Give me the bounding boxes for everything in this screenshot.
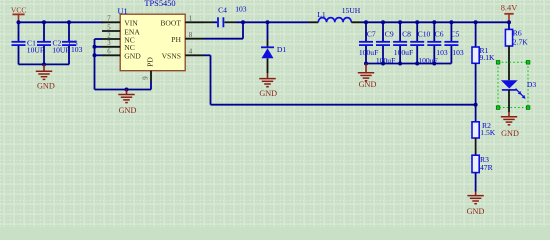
svg-text:D3: D3 [527,80,536,89]
svg-text:103: 103 [452,48,464,57]
capacitor C10 [410,42,424,45]
wire C10 bottom lead [416,46,418,64]
node input gnd junction [42,62,46,66]
node PH junction [241,20,245,24]
pin 1 BOOT stub [185,21,204,23]
node C1 junction [17,20,21,24]
svg-text:6: 6 [107,49,111,56]
svg-text:C7: C7 [367,29,376,38]
node output cap junction [449,20,453,24]
wire C4 to PH node [225,21,237,23]
ground D3 [501,117,519,139]
svg-text:100uF: 100uF [394,48,413,57]
node feedback junction [474,103,478,107]
resistor R3 [472,155,479,172]
pin 9 PD stub [150,71,152,81]
pin 5 ENA stub [102,30,120,32]
svg-text:8.4V: 8.4V [501,4,518,13]
wire D1 gnd stem [267,73,269,79]
svg-text:D1: D1 [277,45,286,54]
wire BOOT to C4 [204,21,214,23]
svg-text:47R: 47R [480,163,494,172]
ground output caps [358,73,377,89]
pin 2 NC stub [102,38,120,40]
svg-text:4: 4 [189,49,193,56]
node D1 junction [266,20,270,24]
svg-text:R6: R6 [513,29,522,38]
svg-text:TPS5450: TPS5450 [144,0,175,8]
wire C1 top lead [18,22,20,41]
svg-text:9.1K: 9.1K [480,53,495,62]
svg-text:GND: GND [124,52,141,61]
capacitor C4 [218,17,223,27]
node output bottom junction [381,62,385,66]
wire PH riser [242,22,244,38]
wire R1 to feedback node [475,63,477,104]
wire C9 top lead [382,22,384,41]
node U1 gnd junction [125,88,129,92]
wire pin9 drop [150,81,152,90]
svg-text:C5: C5 [451,29,460,38]
svg-text:15UH: 15UH [342,6,361,15]
wire C3 bottom lead [68,46,70,65]
wire VSNS riser [210,55,212,104]
wire D3 gnd stem [508,112,510,117]
svg-text:103: 103 [436,48,448,57]
wire D1 top lead [267,22,269,40]
node C2 junction [42,20,46,24]
svg-text:GND: GND [259,89,277,98]
wire output rail [362,21,510,23]
svg-text:VIN: VIN [124,19,138,28]
svg-text:C6: C6 [435,29,444,38]
svg-text:GND: GND [359,80,377,89]
wire C1 bottom lead [18,46,20,65]
svg-text:GND: GND [467,207,485,216]
wire R2 to R3 [475,138,477,155]
capacitor C8 [393,42,407,45]
op-amp U1 TPS5450 body [120,14,185,70]
wire C10 top lead [416,22,418,41]
ground U1 [118,95,136,116]
wire output cap bottom rail [366,63,451,65]
svg-text:BOOT: BOOT [160,19,181,28]
svg-text:8: 8 [189,32,193,39]
wire U1 GND stem [126,90,128,95]
wire feedback horizontal [211,104,476,106]
svg-text:GND: GND [119,106,137,115]
wire C2 top lead [43,22,45,41]
node pin3 junction [93,45,97,49]
node output bottom junction [398,62,402,66]
pin 4 VSNS stub [185,54,204,56]
svg-text:2: 2 [107,32,111,39]
wire C9 bottom lead [382,46,384,64]
svg-text:GND: GND [37,81,55,90]
svg-text:103: 103 [235,4,247,13]
wire C2 bottom lead [43,46,45,65]
diode D1 [261,40,274,73]
svg-text:VCC: VCC [11,6,27,15]
node output cap junction [381,20,385,24]
wire C3 top lead [68,22,70,41]
wire C8 top lead [399,22,401,41]
wire output GND stem [365,64,367,73]
wire pin2 link [95,38,103,40]
svg-text:C8: C8 [402,29,411,38]
svg-text:U1: U1 [117,7,127,16]
wire PH to riser [204,38,243,40]
node pin6 junction [93,53,97,57]
wire C6 bottom lead [433,46,435,64]
capacitor C9 [376,42,390,45]
wire pin6 link [95,54,103,56]
wire input cap bottom rail [19,63,70,65]
pin 6 GND stub [102,54,120,56]
wire VCC rail to U1 VIN [19,21,104,23]
capacitor C6 [427,42,441,45]
wire D3 bottom lead [508,90,510,112]
wire C8 bottom lead [399,46,401,64]
svg-text:5: 5 [107,24,111,31]
svg-text:C4: C4 [218,6,227,15]
capacitor C3 plates [62,42,76,45]
node output cap junction [415,20,419,24]
capacitor C1 plates [12,42,26,45]
wire bus bottom run [95,89,152,91]
wire NC bus vertical [94,39,96,90]
capacitor C2 plates [37,42,51,45]
capacitor C7 [359,42,373,45]
inductor L1 [309,18,362,23]
wire C5 bottom lead [450,46,452,64]
node C3 junction [67,20,71,24]
ground divider [467,196,485,217]
node output gnd junction [364,62,368,66]
resistor R1 [472,47,479,63]
wire C7 bottom lead [365,46,367,64]
power port VCC [11,6,27,22]
capacitor C5 [444,42,458,45]
svg-text:10UF: 10UF [27,45,44,54]
svg-text:PH: PH [171,35,181,44]
svg-text:3: 3 [107,40,111,47]
svg-text:103: 103 [71,45,83,54]
ground input caps [36,71,55,90]
node R1 top junction [474,20,478,24]
wire C6 top lead [433,22,435,41]
svg-text:9: 9 [143,76,150,80]
svg-text:10UF: 10UF [52,45,69,54]
wire C5 top lead [450,22,452,41]
node output cap junction [364,20,368,24]
wire GND stem [43,64,45,71]
pin 8 PH stub [185,38,204,40]
LED D3 [501,80,526,99]
wire R6 to D3 [508,46,510,80]
svg-text:GND: GND [501,129,519,138]
wire R3 gnd stem [475,192,477,196]
power port 8.4V [501,4,518,22]
node R6 top junction [507,20,511,24]
node output bottom junction [432,62,436,66]
wire R3 bottom lead [475,173,477,192]
svg-text:C10: C10 [418,29,431,38]
wire VSNS link [204,54,211,56]
svg-text:1.5K: 1.5K [480,128,495,137]
wire R6 top lead [508,22,510,29]
pin 7 VIN stub [102,21,120,23]
svg-text:VSNS: VSNS [162,52,181,61]
wire C7 top lead [365,22,367,41]
svg-text:2.7K: 2.7K [513,38,528,47]
wire R1 top lead [475,22,477,47]
resistor R6 [505,29,512,46]
node output cap junction [432,20,436,24]
ground D1 [259,79,277,99]
selection box D3 [496,61,530,110]
resistor R2 [472,122,479,138]
wire pin3 link [95,46,103,48]
svg-text:C9: C9 [385,29,394,38]
node output cap junction [398,20,402,24]
pin 3 NC stub [102,46,120,48]
wire R2 top lead [475,105,477,122]
node output bottom junction [415,62,419,66]
svg-text:PD: PD [146,57,155,67]
svg-text:L1: L1 [317,10,326,19]
svg-text:1: 1 [189,16,192,23]
svg-text:7: 7 [107,16,111,23]
